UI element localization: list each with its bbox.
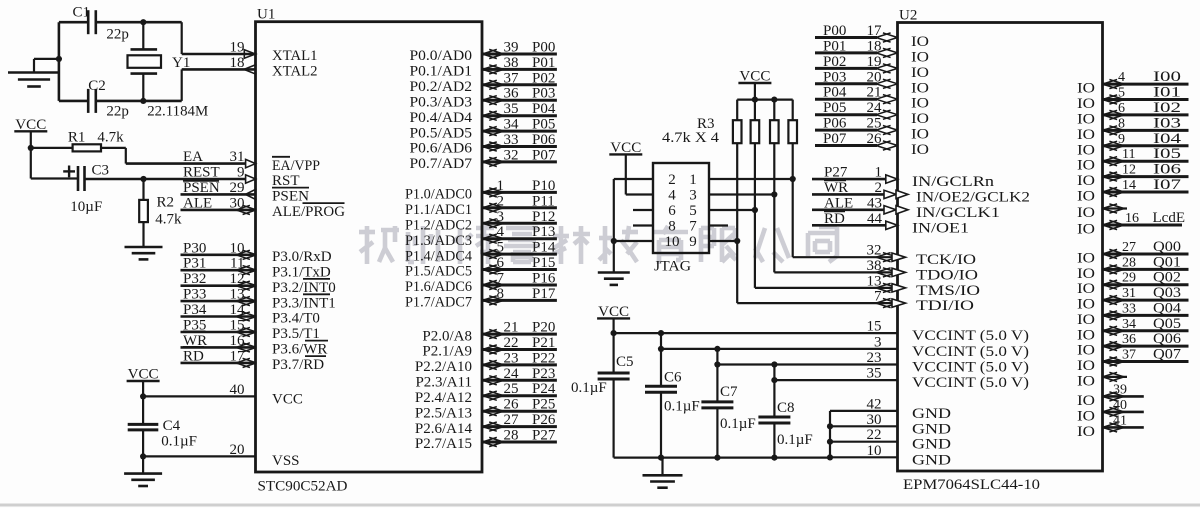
U2 pin name IO (right col): [1077, 343, 1095, 359]
U1 pin 4 wire + net P13: [482, 224, 557, 243]
U2 pin name IO (right col): [1077, 312, 1095, 328]
ground (R2): [125, 247, 163, 259]
svg-text:P23: P23: [532, 366, 555, 382]
svg-text:I07: I07: [1153, 177, 1182, 193]
svg-text:VCCINT (5.0 V): VCCINT (5.0 V): [912, 328, 1029, 344]
svg-text:IO: IO: [1077, 358, 1095, 374]
svg-text:IO: IO: [911, 49, 929, 65]
svg-text:39: 39: [1113, 382, 1127, 397]
wire R3 top bus: [737, 98, 793, 100]
svg-text:IO: IO: [1077, 205, 1095, 221]
capacitor C4 plates: [128, 424, 159, 430]
svg-text:P2.5/A13: P2.5/A13: [415, 405, 472, 421]
svg-text:25: 25: [867, 116, 882, 132]
wire VCC down to C3 row: [31, 148, 78, 179]
svg-text:IN/GCLK1: IN/GCLK1: [916, 205, 1000, 221]
svg-text:IN/OE2/GCLK2: IN/OE2/GCLK2: [916, 189, 1030, 205]
svg-text:0.1µF: 0.1µF: [777, 432, 813, 448]
svg-text:7: 7: [497, 271, 505, 287]
wire EA net + label + pin 31: [126, 149, 256, 168]
svg-text:P21: P21: [532, 335, 555, 351]
wire P30 net + pin 10: [181, 240, 257, 259]
svg-text:P01: P01: [532, 55, 555, 71]
svg-text:30: 30: [867, 412, 882, 428]
wire JTAG TCK/IO to U2 pin 32: [793, 243, 906, 262]
svg-text:I05: I05: [1153, 146, 1181, 162]
svg-text:5: 5: [497, 240, 505, 256]
capacitor C7: [701, 349, 733, 458]
svg-text:ALE/PROG: ALE/PROG: [272, 204, 345, 220]
svg-text:IO: IO: [1077, 327, 1095, 343]
svg-text:ALE: ALE: [183, 195, 212, 211]
U2 unconnected IO stub (row b): [1103, 372, 1128, 381]
junction node XTAL2-Y1: [140, 98, 146, 104]
svg-text:P33: P33: [183, 287, 206, 303]
U1 pin name P1.0/ADC0: [405, 187, 472, 203]
svg-text:IO: IO: [1077, 266, 1095, 282]
svg-text:IO: IO: [911, 80, 929, 96]
svg-text:35: 35: [867, 366, 882, 382]
svg-text:C7: C7: [720, 384, 738, 400]
U1 pin name P1.6/ADC6: [405, 279, 472, 295]
U2 pin name IN/GCLRn: [912, 174, 995, 190]
power VCC (reset): [14, 117, 47, 133]
U1 pin name VCC: [272, 392, 303, 408]
wire net ALE to U2 pin 43: [812, 195, 908, 214]
svg-text:15: 15: [867, 319, 882, 335]
junction R3 leg 2: [752, 207, 758, 213]
svg-text:P3.7/RD: P3.7/RD: [272, 357, 324, 373]
U1 pin name P0.0/AD0: [410, 48, 473, 64]
junction VCC-pin15: [611, 330, 617, 336]
U2 pin name IO (P05 row): [911, 111, 929, 127]
U2 pin 39 stub: [1103, 382, 1144, 401]
U1 pin 1 wire + net P10: [482, 178, 557, 197]
capacitor C3 plates: [78, 166, 85, 191]
svg-text:8: 8: [668, 219, 676, 235]
U1 pin name ALE/PROG (overbar PROG): [272, 203, 345, 220]
ground (crystal): [8, 73, 60, 87]
svg-text:IO: IO: [1077, 81, 1095, 97]
crystal Y1 label: [172, 55, 190, 71]
svg-text:IO: IO: [911, 142, 929, 158]
svg-text:P2.1/A9: P2.1/A9: [422, 344, 472, 360]
capacitor C6: [645, 333, 677, 458]
svg-text:IO: IO: [1077, 158, 1095, 174]
svg-text:XTAL2: XTAL2: [272, 64, 318, 80]
svg-text:22.1184M: 22.1184M: [147, 104, 208, 120]
junction R3 bus a: [752, 97, 758, 103]
U1 pin 28 wire + net P27: [482, 428, 557, 447]
svg-text:37: 37: [504, 70, 520, 86]
svg-text:IN/GCLRn: IN/GCLRn: [912, 174, 995, 190]
U2 pin name GND: [912, 406, 951, 422]
svg-text:4.7k: 4.7k: [97, 129, 124, 145]
wire ALE net + pin 30: [181, 195, 257, 214]
svg-text:12: 12: [1122, 163, 1136, 178]
capacitor C1 plates: [88, 10, 96, 34]
svg-text:IO: IO: [1077, 173, 1095, 189]
svg-text:P05: P05: [823, 100, 846, 116]
wire U2 pin 31 net Q03: [1103, 285, 1189, 305]
crystal Y1 value 22.1184M: [147, 104, 208, 120]
U1 pin name P2.4/A12: [415, 390, 472, 406]
U2 pin name IO (right col): [1077, 127, 1095, 143]
U1 pin 6 wire + net P15: [482, 255, 557, 274]
U2 refdes label: [899, 8, 917, 24]
resistor R1: [73, 144, 101, 151]
wire REST net + label + pin 9: [85, 165, 256, 184]
svg-text:P0.6/AD6: P0.6/AD6: [410, 141, 473, 157]
svg-text:P1.3/ADC3: P1.3/ADC3: [405, 233, 472, 249]
svg-text:P2.3/A11: P2.3/A11: [415, 375, 472, 391]
svg-text:35: 35: [504, 101, 519, 117]
ground (rail): [643, 475, 683, 487]
wire U2 pin 16 net LcdE: [1103, 210, 1185, 230]
U2 pin name VCCINT (5.0 V): [912, 344, 1029, 360]
U1 pin 5 wire + net P14: [482, 240, 557, 259]
U2 pin name IO (P03 row): [911, 80, 929, 96]
U2 pin name IO (right col): [1077, 281, 1095, 297]
capacitor C1 value 22p: [106, 27, 128, 43]
svg-text:R1: R1: [68, 129, 86, 145]
wire VCCINT pin 23: [717, 350, 897, 366]
U1 pin name P3.2/INT0: [272, 279, 336, 296]
svg-text:P00: P00: [532, 40, 555, 56]
U1 pin name P3.1/TxD: [272, 264, 331, 280]
U1 pin name P0.6/AD6: [410, 141, 473, 157]
U2 pin name IN/OE1: [912, 220, 969, 236]
svg-text:1: 1: [497, 178, 505, 194]
svg-text:0.1µF: 0.1µF: [664, 399, 700, 415]
svg-text:IO: IO: [1077, 312, 1095, 328]
svg-text:IO: IO: [1077, 373, 1095, 389]
svg-text:P2.7/A15: P2.7/A15: [415, 436, 472, 452]
U1 pin name P1.7/ADC7: [405, 295, 472, 311]
resistor R3 value 4.7k X 4: [662, 130, 720, 146]
U2 pin name IO (right col): [1077, 358, 1095, 374]
wire VCCINT pin 15: [614, 319, 898, 335]
svg-text:EA: EA: [183, 149, 203, 165]
U1 pin name VSS: [272, 453, 300, 469]
U1 pin name P3.7/RD: [272, 356, 326, 373]
JTAG pin6 stub: [633, 209, 653, 211]
junction VCC-pin40: [140, 393, 146, 399]
wire left vertical crystal: [58, 22, 61, 101]
U1 pin 34 wire + net P05: [482, 117, 557, 136]
svg-text:9: 9: [237, 165, 245, 181]
svg-text:37: 37: [1122, 348, 1136, 363]
svg-text:P3.4/T0: P3.4/T0: [272, 311, 320, 327]
svg-text:P0.0/AD0: P0.0/AD0: [410, 48, 473, 64]
wire R2 to ground: [142, 222, 144, 247]
U1 pin name PSEN (overbar): [272, 188, 309, 205]
U2 pin name IO (right col): [1077, 251, 1095, 267]
wire JTAG pin3 (TDO): [709, 193, 774, 195]
svg-text:2: 2: [875, 180, 883, 196]
wire ground rail (C5-C8): [614, 457, 830, 459]
junction rail-C7: [714, 455, 720, 461]
wire JTAG TDI/IO to U2 pin 7: [737, 289, 905, 308]
svg-text:28: 28: [504, 428, 519, 444]
svg-text:IO: IO: [1077, 424, 1095, 440]
svg-text:6: 6: [668, 203, 676, 219]
wire net P06 to U2 pin 25: [815, 116, 898, 135]
svg-text:20: 20: [867, 69, 882, 85]
U1 pin 20 wire + number: [143, 442, 255, 458]
wire U2 pin 33 net Q04: [1103, 300, 1189, 320]
svg-text:P04: P04: [823, 85, 847, 101]
resistor R2 value 4.7k: [155, 212, 182, 228]
svg-text:P25: P25: [532, 397, 555, 413]
wire U2 pin 4 net I00: [1103, 69, 1189, 89]
svg-text:22: 22: [867, 427, 882, 443]
svg-text:IO: IO: [1077, 142, 1095, 158]
svg-text:P10: P10: [532, 178, 555, 194]
svg-text:29: 29: [230, 180, 245, 196]
wire U2 pin 11 net I05: [1103, 146, 1189, 166]
wire P31 net + pin 11: [181, 256, 257, 275]
svg-text:IN/OE1: IN/OE1: [912, 220, 969, 236]
wire GND pin 22: [830, 427, 898, 443]
svg-text:IO: IO: [1077, 281, 1095, 297]
U1 pin name EA/VPP (overbar EA): [272, 157, 320, 174]
U1 pin 37 wire + net P02: [482, 70, 557, 89]
U2 pin name IO (right col): [1077, 96, 1095, 112]
svg-text:3: 3: [874, 334, 882, 350]
svg-text:IO: IO: [911, 65, 929, 81]
svg-text:GND: GND: [912, 452, 951, 468]
svg-text:I01: I01: [1153, 85, 1181, 101]
svg-text:C6: C6: [664, 369, 682, 385]
svg-text:P22: P22: [532, 350, 555, 366]
wire GND pin 30: [830, 412, 898, 428]
U1 pin name P2.5/A13: [415, 405, 472, 421]
U1 pin 33 wire + net P06: [482, 132, 557, 151]
capacitor C5: [598, 333, 630, 458]
svg-text:38: 38: [504, 55, 519, 71]
U1 pin 7 wire + net P16: [482, 271, 557, 290]
junction rail-C6: [658, 455, 664, 461]
svg-text:P02: P02: [823, 54, 846, 70]
U2 pin name TCK/IO: [916, 252, 976, 268]
svg-text:IO: IO: [911, 111, 929, 127]
wire net P27 to U2 pin 1: [812, 165, 898, 184]
svg-text:VCCINT (5.0 V): VCCINT (5.0 V): [912, 344, 1029, 360]
svg-text:TCK/IO: TCK/IO: [916, 252, 976, 268]
svg-text:27: 27: [504, 412, 520, 428]
wire PSEN net (overbar) + pin 29: [181, 180, 257, 200]
U2 pin name IO (P06 row): [911, 127, 929, 143]
wire XTAL2 to pin 18: [182, 69, 256, 101]
svg-text:P2.6/A14: P2.6/A14: [415, 421, 473, 437]
svg-text:P1.6/ADC6: P1.6/ADC6: [405, 279, 472, 295]
U1 pin 32 wire + net P07: [482, 147, 557, 166]
wire XTAL1 to pin 19: [182, 22, 256, 54]
svg-text:36: 36: [1122, 332, 1136, 347]
U2 pin name IO (P04 row): [911, 96, 929, 112]
U1 pin 25 wire + net P24: [482, 381, 557, 400]
svg-text:P2.0/A8: P2.0/A8: [422, 328, 472, 344]
ground (JTAG): [598, 273, 630, 285]
svg-text:9: 9: [689, 234, 697, 250]
U2 pin name IO (right col): [1077, 111, 1095, 127]
svg-text:P12: P12: [532, 209, 555, 225]
U1 pin 18 number: [230, 55, 245, 71]
junction C4-pin20: [140, 453, 146, 459]
svg-text:6: 6: [1118, 101, 1125, 116]
U1 pin name P0.4/AD4: [410, 110, 473, 126]
JTAG pin numbers 4|3: [668, 188, 697, 204]
JTAG pin7 stub: [709, 224, 728, 226]
wire U2 pin 9 net I04: [1103, 131, 1189, 151]
wire Y1 top: [142, 22, 144, 49]
wire VCC to R3 bus: [754, 83, 756, 100]
resistor R3 label: [697, 116, 715, 132]
svg-text:P0.4/AD4: P0.4/AD4: [410, 110, 473, 126]
wire U2 pin 37 net Q07: [1103, 347, 1189, 367]
svg-text:WR: WR: [824, 180, 848, 196]
svg-text:VCCINT (5.0 V): VCCINT (5.0 V): [912, 375, 1029, 391]
svg-text:26: 26: [504, 397, 520, 413]
U2 pin name GND: [912, 421, 951, 437]
svg-text:14: 14: [1122, 178, 1136, 193]
svg-text:P07: P07: [823, 131, 847, 147]
svg-text:32: 32: [504, 147, 519, 163]
svg-text:P31: P31: [183, 256, 206, 272]
svg-text:RD: RD: [183, 348, 204, 364]
U1 pin 35 wire + net P04: [482, 101, 557, 120]
wire VCC stem (C4): [142, 381, 144, 396]
U2 pin name IN/OE2/GCLK2: [916, 189, 1030, 205]
capacitor C1 label: [73, 5, 91, 21]
svg-text:Q04: Q04: [1153, 300, 1182, 316]
svg-text:IO: IO: [1077, 393, 1095, 409]
wire JTAG pin9 (TDI): [709, 240, 737, 242]
wire JTAG TDO/IO to U2 pin 38: [774, 258, 905, 277]
svg-text:42: 42: [867, 396, 882, 412]
svg-text:Q07: Q07: [1153, 347, 1182, 363]
U1 pin name P0.5/AD5: [410, 125, 473, 141]
junction JTAG gnd: [611, 238, 617, 244]
svg-text:TDO/IO: TDO/IO: [916, 267, 978, 283]
svg-text:23: 23: [867, 350, 882, 366]
svg-text:10µF: 10µF: [70, 199, 102, 215]
junction R3 leg 4: [790, 176, 796, 182]
svg-text:33: 33: [504, 132, 519, 148]
svg-text:P2.4/A12: P2.4/A12: [415, 390, 472, 406]
U1 pin 22 wire + net P21: [482, 335, 557, 354]
capacitor C8 value 0.1uF: [777, 432, 813, 448]
U1 pin 3 wire + net P12: [482, 209, 557, 228]
U2 pin 40 stub: [1103, 398, 1144, 417]
wire U2 pin 8 net I03: [1103, 115, 1189, 135]
svg-text:EPM7064SLC44-10: EPM7064SLC44-10: [903, 477, 1040, 493]
crystal Y1: [128, 49, 162, 73]
wire net WR to U2 pin 2: [812, 180, 908, 199]
svg-text:LcdE: LcdE: [1153, 210, 1185, 226]
JTAG pin numbers 2|1: [668, 172, 697, 188]
U1 pin name XTAL2: [272, 64, 318, 80]
svg-text:GND: GND: [912, 406, 951, 422]
U1 pin name P2.3/A11: [415, 375, 472, 391]
svg-text:EA/VPP: EA/VPP: [272, 158, 320, 174]
svg-text:0.1µF: 0.1µF: [720, 416, 756, 432]
svg-text:21: 21: [867, 85, 882, 101]
svg-text:P16: P16: [532, 271, 556, 287]
svg-text:31: 31: [230, 149, 245, 165]
U2 pin name TMS/IO: [916, 283, 980, 299]
wire U2 pin 29 net Q02: [1103, 270, 1189, 290]
svg-text:U1: U1: [257, 7, 275, 23]
svg-text:P0.7/AD7: P0.7/AD7: [410, 156, 473, 172]
svg-text:Q05: Q05: [1153, 316, 1181, 332]
U1 pin name P3.6/WR: [272, 341, 328, 358]
svg-text:I00: I00: [1153, 69, 1181, 85]
svg-text:C2: C2: [88, 78, 106, 94]
wire U2 pin 28 net Q01: [1103, 254, 1189, 274]
JTAG pin numbers 10|9: [665, 234, 697, 250]
svg-text:P0.2/AD2: P0.2/AD2: [410, 79, 473, 95]
junction C8-pin35: [771, 377, 777, 383]
node rail XTAL1 top: [59, 21, 182, 24]
ground (C4): [124, 474, 162, 486]
junction C8 top: [771, 361, 777, 367]
wire JTAG pin2 to gnd rail: [614, 179, 653, 273]
wire net P05 to U2 pin 24: [815, 100, 898, 119]
svg-text:0.1µF: 0.1µF: [571, 380, 607, 396]
JTAG pin numbers 8|7: [668, 219, 697, 235]
U2 pin name IO (right col): [1077, 327, 1095, 343]
junction C3-R2 node: [140, 176, 146, 182]
svg-text:VSS: VSS: [272, 453, 300, 469]
svg-text:P03: P03: [823, 69, 846, 85]
svg-text:GND: GND: [912, 437, 951, 453]
JTAG pin8 stub: [633, 224, 653, 226]
svg-text:40: 40: [1113, 398, 1127, 413]
svg-text:IO: IO: [911, 96, 929, 112]
svg-text:C3: C3: [92, 162, 110, 178]
svg-text:Q01: Q01: [1153, 254, 1181, 270]
U2 pin name IN/GCLK1: [916, 205, 1000, 221]
svg-text:0.1µF: 0.1µF: [161, 434, 197, 450]
U1 refdes label: [257, 7, 275, 23]
svg-text:P17: P17: [532, 286, 556, 302]
svg-text:16: 16: [1125, 211, 1139, 226]
svg-text:VCC: VCC: [272, 392, 303, 408]
connector JTAG body: [653, 163, 709, 253]
U1 pin name P3.3/INT1: [272, 294, 336, 311]
svg-text:P32: P32: [183, 271, 206, 287]
U1 pin name P0.3/AD3: [410, 94, 473, 110]
capacitor C6 value 0.1uF: [664, 399, 700, 415]
svg-text:28: 28: [1122, 255, 1136, 270]
U2 pin name GND: [912, 437, 951, 453]
svg-text:4: 4: [668, 188, 676, 204]
svg-text:5: 5: [1118, 86, 1125, 101]
capacitor C6 label: [664, 369, 682, 385]
svg-text:4: 4: [497, 224, 505, 240]
wire net P04 to U2 pin 21: [815, 85, 898, 104]
U1 pin name P1.5/ADC5: [405, 264, 472, 280]
junction bus-22: [827, 439, 833, 445]
svg-text:P11: P11: [532, 193, 555, 209]
wire P34 net + pin 14: [181, 302, 257, 321]
U1 pin name P2.0/A8: [422, 328, 472, 344]
svg-text:IO: IO: [1077, 343, 1095, 359]
U1 pin 36 wire + net P03: [482, 86, 557, 105]
capacitor C7 value 0.1uF: [720, 416, 756, 432]
